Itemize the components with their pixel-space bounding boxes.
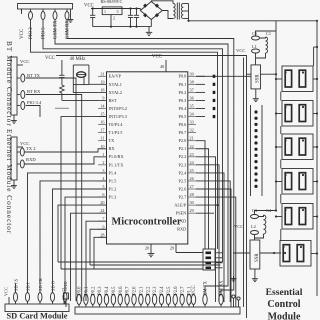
- wire PIO5 route: [43, 23, 223, 262]
- ground arrow above bar: [233, 276, 235, 282]
- svg-text:P1.3: P1.3: [109, 194, 117, 199]
- capacitor C6: [92, 9, 94, 16]
- reset circuit capacitor C2: [61, 60, 63, 75]
- svg-text:P2.7: P2.7: [181, 286, 186, 295]
- wire VCC rail: [91, 8, 141, 10]
- svg-text:BT Module Connector: BT Module Connector: [5, 41, 13, 127]
- ground of Ethernet connector: [13, 180, 15, 183]
- svg-text:P0.4: P0.4: [178, 106, 187, 111]
- pin P0.3 of essential connector: [97, 295, 101, 305]
- svg-text:T0/P3.4: T0/P3.4: [109, 122, 124, 127]
- bus wire A below MCU: [58, 261, 223, 263]
- svg-text:27: 27: [190, 184, 194, 189]
- top pin 40 VCC: [165, 60, 167, 72]
- transformer T1 primary: [173, 4, 175, 19]
- svg-text:XTAL1: XTAL1: [109, 82, 122, 87]
- wire: [215, 267, 223, 269]
- svg-text:35: 35: [190, 104, 194, 109]
- wire: [215, 257, 223, 259]
- svg-text:P2.0: P2.0: [178, 138, 186, 143]
- inductor L1: [266, 37, 268, 53]
- wire XTAL1: [89, 83, 107, 85]
- svg-text:10: 10: [100, 144, 104, 149]
- relay K4: [282, 169, 313, 195]
- svg-text:P0.2: P0.2: [91, 286, 96, 295]
- svg-text:7: 7: [102, 216, 104, 221]
- wire: [196, 149, 209, 249]
- wire BT TX route down: [26, 78, 76, 301]
- wire sd far right stub: [63, 292, 65, 304]
- svg-text:P2.6: P2.6: [174, 286, 179, 295]
- svg-text:C1: C1: [266, 31, 271, 36]
- SSR box top: [251, 65, 261, 89]
- relay K1: [282, 66, 313, 92]
- svg-text:VCC: VCC: [4, 287, 9, 296]
- svg-text:1: 1: [102, 152, 104, 157]
- svg-text:30: 30: [190, 200, 194, 205]
- wire VCC top bus: [56, 56, 247, 319]
- svg-text:VCC: VCC: [236, 48, 245, 53]
- connector essential control bar: [75, 307, 240, 314]
- svg-text:19: 19: [100, 79, 104, 84]
- wire relay to left bus: [276, 113, 282, 115]
- pin P2.3 of essential connector: [152, 295, 156, 305]
- svg-text:PM RX: PM RX: [220, 280, 225, 295]
- wire GSM RX route: [67, 23, 234, 295]
- svg-text:9: 9: [102, 224, 104, 229]
- svg-text:P0.0: P0.0: [78, 286, 83, 295]
- wire PIO2 route: [31, 23, 218, 249]
- pin 2M TX of essential connector: [203, 295, 207, 305]
- wires: [255, 234, 264, 238]
- svg-text:TXD: TXD: [177, 219, 186, 224]
- pin PIO 5 of top connector: [42, 9, 44, 12]
- wire relay to left bus: [276, 181, 282, 183]
- wire MCU pin join bus C: [61, 117, 107, 269]
- wire relay to right bus: [313, 146, 317, 148]
- svg-text:VCC: VCC: [152, 55, 162, 60]
- svg-text:SSR: SSR: [256, 74, 261, 83]
- pin stub right of SD: [15, 283, 17, 293]
- svg-text:VCC: VCC: [45, 56, 55, 61]
- svg-text:37: 37: [190, 87, 194, 92]
- wire bottom power rail: [93, 26, 152, 28]
- wire bridge right to transformer: [162, 11, 173, 19]
- ground of BT connector: [13, 115, 15, 118]
- wire SSR left: [233, 252, 250, 254]
- pin P0.7 of essential connector: [125, 295, 129, 305]
- ground below SSR: [254, 269, 256, 276]
- regulator U2: [102, 7, 122, 15]
- svg-text:P2.5: P2.5: [167, 286, 172, 295]
- regulator center pin 2: [110, 15, 112, 27]
- pin P0.2 of essential connector: [91, 295, 95, 305]
- svg-text:SD O: SD O: [50, 281, 55, 291]
- svg-text:P1.5: P1.5: [109, 178, 117, 183]
- svg-text:20: 20: [100, 200, 104, 205]
- pin BT TX: [17, 77, 20, 79]
- MCU right stub wires: [196, 75, 205, 77]
- transformer T1 secondary: [181, 4, 183, 19]
- svg-text:P0.7: P0.7: [126, 286, 131, 295]
- wire relay to left bus: [276, 78, 282, 80]
- svg-text:Control: Control: [267, 299, 300, 310]
- wire GSM TX route: [55, 23, 228, 295]
- svg-text:28: 28: [190, 192, 194, 197]
- wire relay to right bus: [313, 113, 317, 115]
- svg-text:P2.2: P2.2: [178, 154, 186, 159]
- svg-text:3: 3: [102, 168, 104, 173]
- pin P0.0 of essential connector: [77, 295, 81, 305]
- svg-text:32: 32: [190, 128, 194, 133]
- wire TX2 to MCU RX: [24, 149, 106, 152]
- connector Ethernet module bar: [11, 137, 17, 180]
- svg-text:22: 22: [190, 144, 194, 149]
- wire MCU pin to bottom bar: [86, 221, 107, 301]
- wire: [260, 37, 266, 38]
- svg-text:SSR: SSR: [255, 253, 260, 262]
- svg-text:C5: C5: [252, 31, 258, 36]
- capacitor C7: [130, 9, 132, 16]
- svg-text:RS-08/09VC: RS-08/09VC: [101, 0, 123, 4]
- wire P2.7 row down: [196, 197, 236, 307]
- relay K5: [282, 204, 313, 230]
- svg-text:VCC: VCC: [20, 59, 29, 64]
- connector SD card bar: [5, 304, 69, 312]
- wire BT RX route down: [26, 95, 82, 302]
- wire to relay bus: [261, 73, 277, 75]
- svg-text:P2.6: P2.6: [178, 186, 187, 191]
- svg-text:P2.4: P2.4: [178, 170, 187, 175]
- svg-text:RXD: RXD: [177, 227, 186, 232]
- svg-text:P0.1: P0.1: [178, 82, 186, 87]
- MCU bottom pin 29 stub to header: [175, 244, 177, 253]
- svg-text:P0.3: P0.3: [98, 286, 103, 295]
- wire P0.0 row to snubber: [196, 75, 251, 77]
- svg-text:P0.5: P0.5: [178, 114, 186, 119]
- svg-text:20: 20: [145, 246, 149, 251]
- svg-text:VCC: VCC: [20, 28, 25, 39]
- svg-text:21: 21: [190, 136, 194, 141]
- svg-text:16: 16: [100, 120, 104, 125]
- pin P2.2 of essential connector: [146, 295, 150, 305]
- svg-text:BT RX: BT RX: [27, 89, 41, 94]
- wire bridge top to transformer: [151, 1, 173, 4]
- svg-text:1: 1: [104, 9, 106, 14]
- svg-text:P0.5: P0.5: [112, 286, 117, 295]
- wire AC line to right bus: [189, 20, 318, 22]
- wires: [259, 215, 264, 217]
- wire: [196, 173, 224, 302]
- svg-text:9: 9: [102, 95, 104, 100]
- wire top right corner: [314, 46, 317, 48]
- faint wire: [55, 107, 69, 109]
- svg-text:P0.1: P0.1: [85, 286, 90, 295]
- svg-text:SD CK: SD CK: [38, 277, 43, 291]
- crystal X1 body: [77, 72, 86, 78]
- pin P2.1 of essential connector: [139, 295, 143, 305]
- svg-text:11: 11: [100, 136, 104, 141]
- svg-text:P1.0/RX: P1.0/RX: [109, 154, 125, 159]
- svg-text:P0.4: P0.4: [105, 286, 110, 295]
- svg-text:P0.7: P0.7: [178, 130, 187, 135]
- wire RXD to MCU P1.0: [24, 157, 106, 164]
- pin P0.1 of essential connector: [84, 295, 88, 305]
- svg-text:P2.2: P2.2: [146, 286, 151, 295]
- wire: [196, 181, 230, 302]
- wire MCU pin join bus C: [94, 237, 107, 269]
- bus wire B below MCU: [90, 264, 220, 266]
- wire relay to right bus: [313, 216, 317, 218]
- svg-text:VCC: VCC: [192, 285, 197, 295]
- relay K3: [282, 134, 313, 160]
- wire MCU pin join bus A: [58, 205, 107, 262]
- pin P0.4 of essential connector: [104, 295, 108, 305]
- capacitor C3: [251, 215, 259, 219]
- pin 12 stub: [64, 293, 69, 299]
- wires snubber: [256, 53, 266, 58]
- svg-text:EA/VP: EA/VP: [109, 74, 122, 79]
- svg-text:P2.5: P2.5: [178, 178, 186, 183]
- svg-text:SD I: SD I: [25, 282, 30, 291]
- svg-text:18: 18: [100, 87, 104, 92]
- wire PSEN row: [196, 212, 214, 214]
- svg-text:P0.6: P0.6: [178, 122, 187, 127]
- wire aux bus: [243, 58, 245, 308]
- pin VCC of SD connector: [8, 297, 10, 304]
- ground pin of top connector: [70, 9, 72, 17]
- svg-text:INT0/P3.2: INT0/P3.2: [109, 106, 127, 111]
- svg-text:RX: RX: [109, 146, 116, 151]
- svg-text:L2: L2: [251, 224, 256, 229]
- svg-text:P2.4: P2.4: [160, 286, 165, 295]
- ground below MCU: [150, 251, 152, 254]
- wire bridge bottom to rail: [150, 20, 152, 27]
- relay K2: [282, 101, 313, 127]
- svg-text:P2.3: P2.3: [153, 286, 158, 295]
- svg-text:25: 25: [190, 168, 194, 173]
- pin P2.0 of essential connector: [132, 295, 136, 305]
- wire MCU row to box: [247, 73, 252, 75]
- wire relay to left bus: [276, 146, 282, 148]
- svg-text:P1.2: P1.2: [109, 186, 117, 191]
- svg-text:RXD: RXD: [26, 157, 36, 162]
- pin SD CS of SD connector: [14, 293, 18, 302]
- svg-text:P2.1: P2.1: [178, 146, 186, 151]
- svg-text:PSEN: PSEN: [176, 211, 187, 216]
- svg-text:28: 28: [100, 232, 104, 237]
- svg-text:P0.3: P0.3: [178, 98, 186, 103]
- dotted more-pins column: [254, 110, 257, 113]
- svg-text:SD Card Module: SD Card Module: [7, 312, 68, 320]
- svg-text:2M TX: 2M TX: [204, 281, 209, 295]
- svg-text:PIO 3.4: PIO 3.4: [27, 100, 42, 105]
- svg-text:P2.1: P2.1: [140, 286, 145, 295]
- svg-text:6: 6: [102, 192, 104, 197]
- capacitor C4b: [251, 231, 259, 235]
- pin VCC of Ethernet connector: [17, 146, 23, 148]
- svg-text:T1/P3.5: T1/P3.5: [109, 130, 123, 135]
- wire relay to left bus: [276, 216, 282, 218]
- capacitor C5: [252, 36, 260, 40]
- svg-text:33: 33: [190, 120, 194, 125]
- svg-text:2: 2: [102, 160, 104, 165]
- pin TX2: [17, 151, 20, 153]
- svg-text:VCC: VCC: [234, 224, 243, 229]
- transformer core: [176, 3, 178, 20]
- svg-text:12: 12: [61, 288, 66, 292]
- wire MCU pin to SD pin: [65, 197, 107, 292]
- pin P0.6 of essential connector: [118, 295, 122, 305]
- pin PIO 2 of top connector: [30, 9, 32, 12]
- pin RXD: [17, 163, 20, 165]
- svg-text:Module: Module: [268, 312, 301, 320]
- svg-text:17: 17: [100, 128, 104, 133]
- pin PIO 3.4: [17, 105, 20, 107]
- svg-text:38: 38: [190, 79, 194, 84]
- ground of power supply: [148, 27, 150, 30]
- wire ALE row down: [196, 204, 218, 206]
- svg-text:BT TX: BT TX: [27, 73, 41, 78]
- wire P2.6 row down: [196, 189, 231, 307]
- svg-text:40: 40: [160, 64, 164, 69]
- pin SD O of SD connector: [51, 293, 55, 302]
- bus wire C below MCU: [61, 268, 203, 270]
- svg-text:XTAL2: XTAL2: [109, 90, 122, 95]
- svg-text:2: 2: [113, 16, 115, 21]
- svg-text:29: 29: [170, 246, 174, 251]
- wire: [215, 252, 223, 254]
- svg-text:ALE/P: ALE/P: [174, 203, 187, 208]
- relay K6: [280, 241, 311, 267]
- pin GSM RX of top connector: [66, 9, 68, 12]
- svg-text:23: 23: [190, 152, 194, 157]
- svg-text:5: 5: [102, 184, 104, 189]
- svg-text:36: 36: [190, 95, 194, 100]
- pin P2.4 of essential connector: [159, 295, 163, 305]
- wire: [196, 157, 216, 302]
- svg-text:TX: TX: [109, 138, 116, 143]
- svg-text:TX 2: TX 2: [26, 146, 36, 151]
- connector BT module bar: [11, 57, 17, 115]
- wire MCU pin join bus B: [90, 229, 107, 265]
- svg-text:31: 31: [100, 71, 104, 76]
- SSR box bottom: [250, 240, 260, 269]
- inductor L2: [264, 215, 266, 234]
- svg-text:RST: RST: [109, 98, 117, 103]
- svg-text:INT1/P3.3: INT1/P3.3: [109, 114, 127, 119]
- crystal X1 loop: [73, 64, 89, 66]
- wire reset to MCU RST: [62, 99, 107, 101]
- wire MCU pin to SD pin: [40, 181, 107, 293]
- column side lines: [250, 105, 252, 196]
- inter-relay links: [280, 92, 282, 101]
- bus x276: [275, 21, 277, 211]
- test pin 2: [238, 300, 240, 307]
- wire: [215, 262, 223, 264]
- ground below box: [255, 89, 257, 96]
- svg-text:P0.0: P0.0: [178, 74, 186, 79]
- svg-text:Essential: Essential: [266, 287, 303, 298]
- svg-text:26: 26: [190, 176, 194, 181]
- svg-text:40 MHz: 40 MHz: [70, 57, 86, 62]
- wire MCU pin to bottom bar: [71, 213, 107, 301]
- pin VCC of BT connector: [17, 64, 23, 66]
- wire bridge left to rail: [139, 9, 141, 11]
- svg-text:P1.4: P1.4: [109, 170, 118, 175]
- capacitor C8: [136, 9, 138, 16]
- wire: [196, 165, 219, 302]
- pin P2.5 of essential connector: [166, 295, 170, 305]
- pin P2.6 of essential connector: [173, 295, 177, 305]
- pin VCC of essential connector: [191, 295, 195, 305]
- svg-text:L1: L1: [252, 44, 257, 49]
- wire relay to right bus: [313, 78, 317, 80]
- svg-text:PIO 2: PIO 2: [29, 27, 34, 39]
- pin P0.5 of essential connector: [111, 295, 115, 305]
- test pin 1: [233, 298, 235, 307]
- svg-text:P2.3: P2.3: [178, 162, 186, 167]
- capacitor C2b: [252, 49, 260, 53]
- pin P1.1 of essential connector: [187, 295, 191, 305]
- MCU bottom pin 20 GND: [150, 244, 152, 251]
- svg-text:3: 3: [117, 9, 119, 14]
- pin SD CK of SD connector: [38, 293, 42, 302]
- bus x317 right edge: [316, 21, 318, 296]
- svg-text:Microcontroller: Microcontroller: [112, 217, 182, 228]
- svg-text:P2.0: P2.0: [133, 286, 138, 295]
- wire: [196, 141, 205, 249]
- svg-text:39: 39: [190, 71, 194, 76]
- pin VCC of top connector: [21, 9, 23, 12]
- wire MCU pin to SD pin: [28, 173, 107, 293]
- pin GND of SD connector: [63, 293, 67, 302]
- svg-text:PIO 5: PIO 5: [42, 27, 47, 39]
- svg-text:P1.1/TX: P1.1/TX: [109, 162, 125, 167]
- svg-text:GSM TX: GSM TX: [54, 20, 59, 39]
- wire SSR right to relay 6: [260, 252, 281, 254]
- svg-text:P2.7: P2.7: [178, 194, 187, 199]
- pin P2.7 of essential connector: [180, 295, 184, 305]
- connector J5 4-pin header: [203, 249, 215, 270]
- wire XTAL2: [73, 85, 106, 93]
- svg-text:P0.2: P0.2: [178, 90, 186, 95]
- wire MCU pin to SD pin: [53, 189, 107, 293]
- microcontroller U1 box: [107, 72, 188, 244]
- connector J1 bar (top): [18, 4, 73, 10]
- transformer taps: [183, 3, 188, 5]
- wire relay to right bus: [313, 181, 317, 183]
- svg-text:15: 15: [100, 112, 104, 117]
- wire relay to right bus: [311, 253, 317, 255]
- pin SD I of SD connector: [26, 293, 30, 302]
- pin BT RX: [17, 94, 20, 96]
- svg-text:Ethernet Module Connector: Ethernet Module Connector: [5, 129, 13, 234]
- svg-text:29: 29: [190, 208, 194, 213]
- pin PM RX of essential connector: [219, 295, 223, 305]
- svg-text:P0.6: P0.6: [119, 286, 124, 295]
- pin GSM TX of top connector: [54, 9, 56, 12]
- resistor network RN1 black marks: [213, 75, 216, 78]
- resistor R1 reset pulldown: [60, 85, 64, 93]
- bridge rectifier D1-D4: [140, 2, 162, 20]
